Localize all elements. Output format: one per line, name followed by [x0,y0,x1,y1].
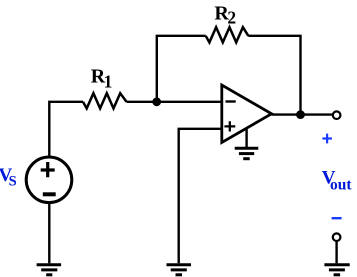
ground (bottom left) [37,265,62,275]
wire op-amp output to terminal [272,113,332,115]
op-amp U1 [222,85,272,143]
voltage source VS [26,157,72,203]
label + (blue) [322,134,332,144]
terminal + (output, open circle) [333,111,341,119]
wire from R2 to output node [248,36,300,115]
node inverting input junction [152,97,161,106]
svg-text:1: 1 [104,72,113,92]
ground (bottom right) [324,265,349,275]
svg-text:2: 2 [227,7,236,27]
wire feedback left riser and top run to R2 [157,36,206,102]
svg-text:S: S [9,174,17,190]
wire VS bottom to ground [48,203,50,264]
terminal − (output, open circle) [333,233,341,241]
node output junction [296,110,305,119]
op-amp ground stem [245,128,247,148]
ground (op-amp) [235,148,259,159]
wire from VS top-left corner to R1 [49,102,83,156]
resistor R1 [83,93,127,108]
resistor R2 [206,27,249,42]
wire terminal to bottom-right ground [335,241,337,263]
label − (blue) [332,217,342,219]
svg-text:out: out [330,176,352,193]
ground (bottom middle) [167,265,192,275]
wire from R1 to op-amp inverting input [127,101,222,103]
label Vout [322,168,353,194]
label VS [0,165,17,190]
wire non-inverting input to ground [179,129,222,263]
